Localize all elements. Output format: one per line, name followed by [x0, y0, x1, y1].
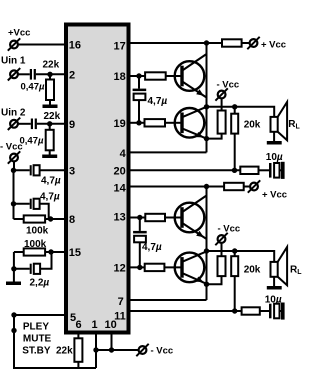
resistor 22k (pin 6 standby) [74, 333, 82, 369]
resistor (ch1 feedback) [240, 167, 258, 174]
wire [14, 203, 30, 205]
node [11, 201, 16, 206]
svg-text:10µ: 10µ [266, 152, 283, 163]
wire [260, 310, 269, 312]
svg-text:PLEY: PLEY [23, 322, 49, 333]
svg-text:Uin 1: Uin 1 [1, 56, 26, 67]
wire [40, 252, 51, 269]
svg-text:4,7µ: 4,7µ [142, 242, 162, 253]
resistor (ch2 emitter, from -Vcc) [207, 256, 226, 284]
svg-text:17: 17 [114, 40, 126, 52]
wire [164, 266, 181, 268]
node (pin1 junction) [93, 347, 98, 352]
wire (ground bus) [13, 252, 15, 282]
transistor Q2 [175, 107, 207, 139]
terminal -Vcc (left) [8, 151, 20, 163]
wire [244, 186, 250, 188]
node [11, 312, 16, 317]
resistor 100k (pin 15) [14, 248, 66, 255]
resistor 22k (input 1, to ground) [46, 74, 54, 104]
ground (ch1 speaker) [267, 141, 282, 145]
svg-text:20: 20 [114, 165, 126, 177]
svg-text:+ Vcc: + Vcc [261, 40, 286, 51]
capacitor 10µ (ch1) [269, 163, 281, 178]
svg-text:+Vcc: +Vcc [8, 28, 30, 39]
svg-text:0,47µ: 0,47µ [21, 82, 46, 93]
capacitor 0,47µ (input 2) [31, 119, 37, 130]
svg-text:3: 3 [69, 165, 75, 177]
svg-text:MUTE: MUTE [23, 334, 52, 345]
svg-text:9: 9 [69, 119, 75, 131]
wire pin17 (+Vcc rail ch1) [129, 42, 223, 44]
svg-text:- Vcc: - Vcc [218, 224, 241, 235]
node (pin 8 junction) [48, 216, 53, 221]
resistor (pin12 base) [145, 264, 165, 271]
wire pin5 [14, 314, 66, 316]
svg-text:4: 4 [120, 148, 127, 160]
svg-text:22k: 22k [43, 60, 60, 71]
node (rail ch2) [204, 184, 209, 189]
svg-text:100k: 100k [26, 226, 49, 237]
svg-text:14: 14 [114, 182, 127, 194]
node (pin18) [136, 73, 141, 78]
capacitor 2,2µ (pin 15 parallel) [30, 264, 40, 274]
terminal -Vcc (ch1) [215, 88, 227, 100]
wire (down to bottom rail) [14, 334, 96, 369]
svg-text:13: 13 [114, 212, 126, 224]
node [11, 266, 16, 271]
svg-text:4,7µ: 4,7µ [148, 96, 168, 107]
svg-text:19: 19 [114, 118, 126, 130]
capacitor 4,7µ (between pin13 and pin12) [133, 218, 147, 268]
wire pin2 [36, 73, 66, 75]
svg-text:12: 12 [114, 263, 126, 275]
svg-text:2: 2 [69, 69, 75, 81]
wire pin13 [129, 217, 146, 219]
wire pin19 [129, 122, 145, 124]
svg-text:4,7µ: 4,7µ [41, 176, 61, 187]
node (pin2 junction) [47, 72, 52, 77]
resistor (ch1 emitter, from -Vcc) [207, 111, 226, 139]
terminal -Vcc (ch2) [215, 233, 227, 245]
resistor 100k (pin 8) [14, 215, 67, 222]
svg-text:10µ: 10µ [265, 294, 282, 305]
wire (ch2 output to speaker) [207, 251, 275, 262]
node (rail ch1) [204, 40, 209, 45]
resistor (pin18 base) [145, 72, 166, 79]
wire [18, 73, 30, 75]
node (pin11 junction) [232, 308, 237, 313]
svg-text:20k: 20k [244, 265, 261, 276]
svg-text:+ Vcc: + Vcc [262, 190, 287, 201]
capacitor 4,7µ (pin 8 parallel) [30, 199, 40, 209]
resistor (rail ch2) [224, 183, 244, 190]
wire [165, 122, 181, 124]
wire [166, 75, 181, 77]
node (pin10 junction) [109, 347, 114, 352]
resistor 20k (ch1) [231, 107, 238, 171]
wire [18, 123, 31, 125]
svg-text:22k: 22k [44, 111, 61, 122]
svg-text:16: 16 [69, 40, 81, 52]
transistor Q1 [175, 54, 207, 98]
wire [14, 268, 30, 270]
node (pin12) [137, 265, 142, 270]
svg-text:1: 1 [92, 319, 98, 331]
wire pin20 [129, 169, 241, 171]
svg-text:0,47µ: 0,47µ [20, 136, 45, 147]
resistor (ch2 feedback) [242, 307, 260, 314]
wire [242, 42, 250, 44]
transistor Q3 [175, 196, 207, 240]
wire pin12 [129, 266, 145, 268]
wire (ch1 output bus vertical) [206, 43, 208, 152]
wire (ch1 output to speaker) [207, 107, 275, 117]
wire pin14 (+Vcc rail ch2) [129, 186, 225, 188]
svg-text:Uin 2: Uin 2 [1, 108, 26, 119]
node (pin20 junction) [232, 168, 237, 173]
capacitor 0,47µ (input 1) [30, 69, 36, 80]
wire pin18 [129, 75, 146, 77]
svg-text:6: 6 [76, 319, 82, 331]
svg-text:- Vcc: - Vcc [151, 346, 174, 357]
ground (ch1 feedback, sideways) [281, 162, 285, 179]
svg-text:11: 11 [114, 311, 126, 323]
op-amp U1 (IC body, 20-pin block) [66, 25, 129, 333]
transistor Q4 [175, 251, 207, 283]
node (ch2 emitter junction) [204, 282, 209, 287]
wire [259, 169, 270, 171]
node (pin19) [136, 120, 141, 125]
resistor 22k (input 2, to ground) [46, 124, 54, 155]
resistor 20k (ch2) [231, 251, 238, 311]
wire [13, 315, 15, 334]
ground (ch2 speaker) [267, 286, 282, 290]
wire (-Vcc vertical bus) [13, 161, 16, 219]
ground (ch2 feedback, sideways) [281, 303, 285, 320]
wire pin3 [40, 169, 66, 171]
terminal -Vcc (bottom) [136, 344, 148, 356]
terminal + Vcc (ch2) [248, 180, 260, 192]
node (ch1 output junction) [204, 104, 209, 109]
svg-text:ST.BY: ST.BY [22, 346, 51, 357]
wire (ch2 output bus vertical) [206, 187, 208, 301]
ground (input 1) [43, 105, 58, 109]
node [11, 168, 16, 173]
ground (input 2) [42, 155, 57, 159]
node (pin9 junction) [47, 121, 52, 126]
wire pin1 [95, 333, 97, 369]
wire [221, 243, 223, 256]
ground (pin 15 network) [6, 282, 21, 286]
wire pin11 [129, 310, 242, 312]
wire pin4 [129, 151, 207, 153]
svg-text:8: 8 [69, 214, 75, 226]
wire pin7 [129, 299, 207, 301]
speaker RL (ch2) [271, 247, 288, 286]
node [232, 248, 237, 253]
wire [221, 98, 223, 110]
node [232, 104, 237, 109]
resistor (pin13 base) [145, 214, 165, 221]
svg-text:2,2µ: 2,2µ [30, 278, 50, 289]
svg-text:18: 18 [114, 71, 126, 83]
node (ch2 output junction) [204, 248, 209, 253]
wire [14, 169, 30, 171]
capacitor 4,7µ (pin 3 series) [30, 165, 40, 175]
node [11, 328, 16, 333]
terminal +Vcc (top left) [8, 38, 20, 50]
speaker RL (ch1) [271, 102, 288, 141]
svg-text:4,7µ: 4,7µ [40, 192, 60, 203]
svg-text:15: 15 [69, 247, 81, 259]
svg-text:7: 7 [118, 296, 124, 308]
capacitor 10µ (ch2) [269, 304, 281, 319]
svg-text:22k: 22k [56, 346, 73, 357]
wire pin16 [18, 44, 66, 46]
resistor (pin19 base) [145, 119, 166, 126]
wire [40, 204, 49, 219]
terminal Uin 1 [8, 68, 20, 80]
node (ch1 emitter junction) [204, 136, 209, 141]
resistor (rail ch1) [222, 39, 242, 46]
wire (to -Vcc terminal) [96, 349, 139, 351]
terminal + Vcc (ch1) [247, 37, 259, 49]
capacitor 4,7µ (between pin18 and pin19) [133, 76, 147, 123]
node (pin 15 junction) [48, 249, 53, 254]
wire pin9 [37, 123, 66, 125]
svg-text:20k: 20k [244, 120, 261, 131]
terminal Uin 2 [8, 118, 20, 130]
wire [165, 217, 181, 219]
wire pin10 [111, 333, 113, 351]
node (pin13) [137, 215, 142, 220]
